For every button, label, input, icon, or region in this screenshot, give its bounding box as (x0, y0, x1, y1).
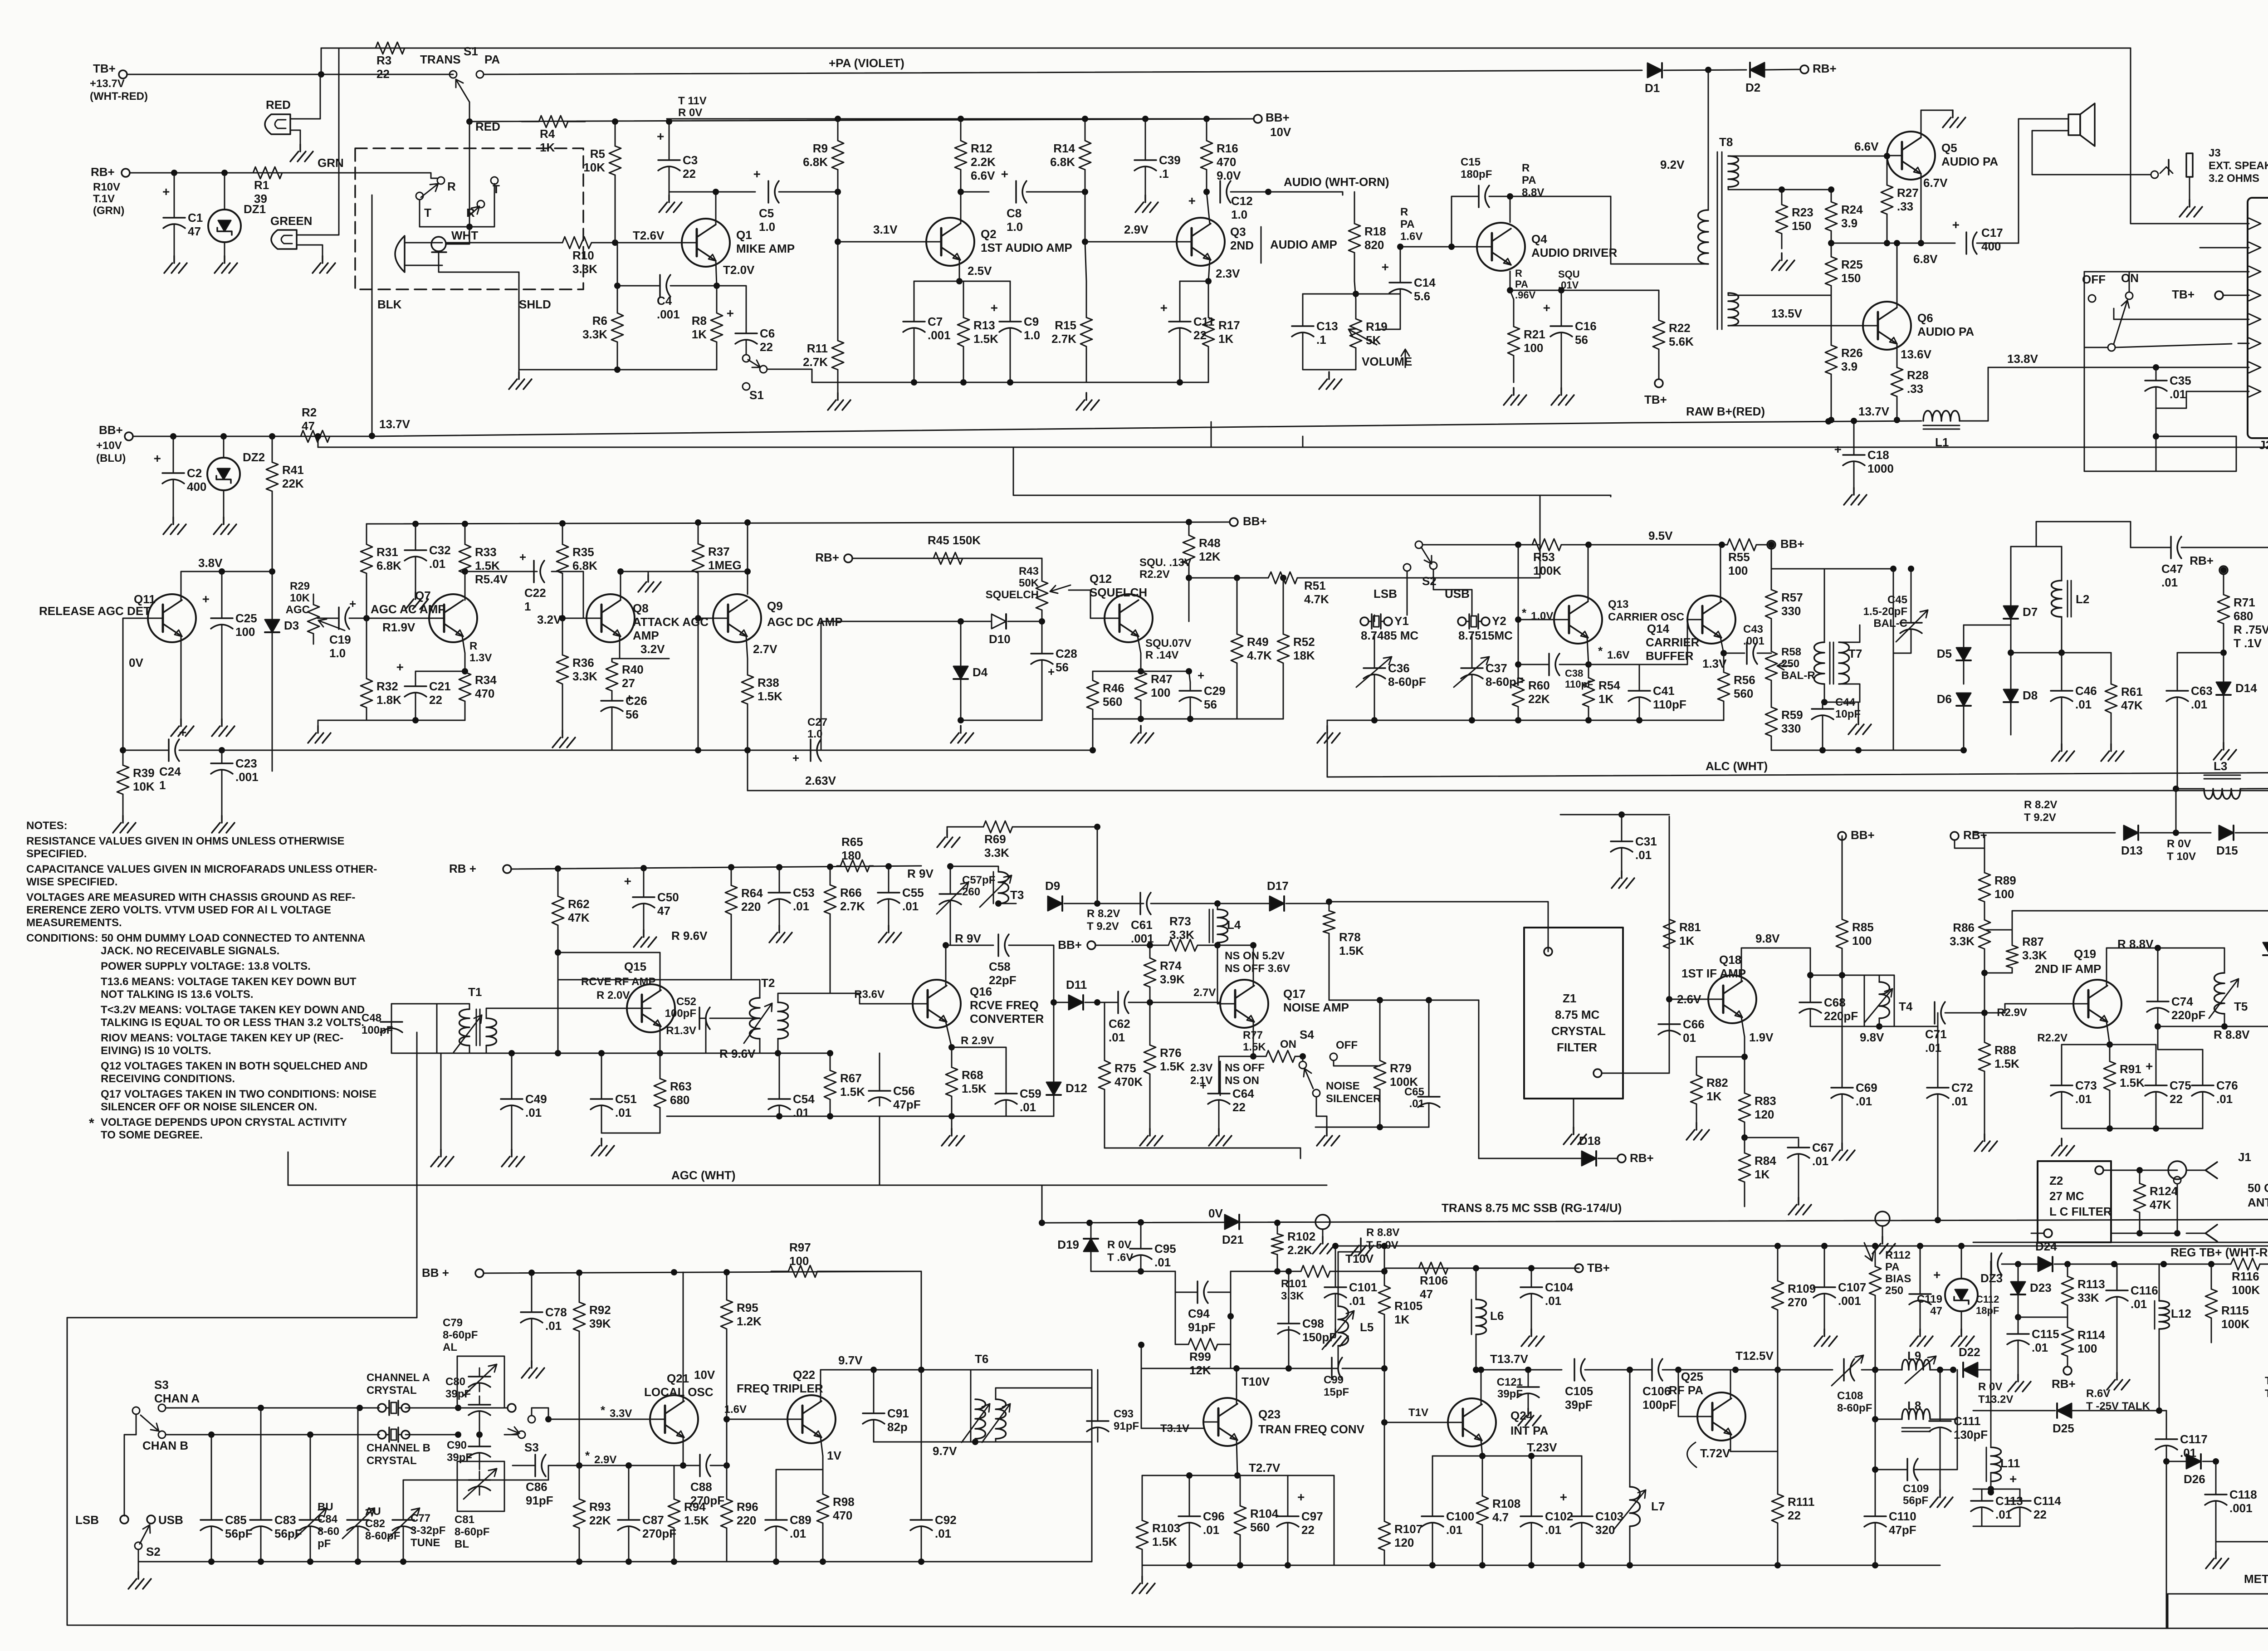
ground (509, 372, 532, 389)
svg-text:6.7V: 6.7V (1923, 176, 1948, 190)
wire (1053, 1095, 1055, 1116)
svg-text:R93: R93 (589, 1500, 611, 1514)
wire (601, 1114, 602, 1133)
wire Q13 base (1518, 619, 1554, 620)
wire (747, 720, 748, 750)
svg-text:15pF: 15pF (1324, 1386, 1349, 1398)
svg-text:C56: C56 (893, 1084, 915, 1098)
svg-text:CRYSTAL: CRYSTAL (1551, 1024, 1606, 1038)
svg-text:R46: R46 (1103, 681, 1124, 695)
svg-text:.01: .01 (1812, 1154, 1828, 1168)
resistor R113 (2067, 1264, 2068, 1276)
svg-text:R43: R43 (1019, 565, 1039, 577)
wire (1810, 1017, 1811, 1026)
wire (950, 866, 998, 872)
svg-text:4.7: 4.7 (1492, 1510, 1509, 1524)
svg-text:R83: R83 (1755, 1094, 1776, 1108)
svg-text:10K: 10K (133, 780, 155, 793)
svg-text:R28: R28 (1907, 368, 1929, 382)
wire (1452, 196, 1479, 247)
svg-text:4.7K: 4.7K (1247, 649, 1272, 662)
svg-text:PA: PA (1400, 218, 1415, 230)
resistor R36 (562, 618, 563, 655)
svg-text:+: + (991, 301, 998, 315)
svg-text:J1: J1 (2238, 1150, 2251, 1164)
svg-text:NOTES:: NOTES: (26, 820, 68, 832)
svg-text:ERERENCE ZERO VOLTS. VTVM USE: ERERENCE ZERO VOLTS. VTVM USED FOR Al L … (26, 904, 331, 916)
wire (1097, 827, 1098, 904)
wire (1559, 664, 1589, 665)
wire (479, 1461, 480, 1470)
wire (223, 436, 225, 458)
svg-text:BB+: BB+ (99, 423, 123, 437)
svg-text:C61: C61 (1131, 918, 1153, 932)
ground (1564, 1127, 1586, 1144)
wire (1471, 683, 1473, 720)
transistor Q6 (1863, 302, 1911, 350)
svg-text:R104: R104 (1250, 1507, 1279, 1520)
resistor R87 (2012, 941, 2013, 945)
wire (611, 716, 613, 750)
wire (715, 192, 717, 225)
svg-text:+: + (1834, 442, 1842, 456)
resistor R17 (1208, 281, 1209, 317)
svg-text:C76: C76 (2216, 1079, 2238, 1092)
svg-text:D11: D11 (1066, 978, 1087, 992)
wire (1518, 545, 1519, 664)
node BB+ osc (1767, 541, 1775, 549)
wire (1253, 1056, 1262, 1057)
transistor Q8 (587, 594, 635, 642)
wire (1054, 1002, 1069, 1003)
svg-text:C58: C58 (989, 960, 1011, 973)
svg-text:C74: C74 (2171, 995, 2193, 1008)
transistor Q17 (1220, 980, 1268, 1028)
svg-text:R.6V: R.6V (2086, 1387, 2110, 1400)
svg-text:C77: C77 (411, 1512, 430, 1524)
svg-text:AUDIO (WHT-ORN): AUDIO (WHT-ORN) (1284, 175, 1389, 189)
svg-text:C109: C109 (1903, 1483, 1929, 1495)
svg-text:Q2: Q2 (981, 227, 997, 241)
capacitor (1920, 1285, 1921, 1294)
svg-text:WISE SPECIFIED.: WISE SPECIFIED. (26, 876, 117, 888)
svg-text:+: + (753, 167, 761, 181)
wire (961, 720, 1042, 721)
ground (942, 1128, 964, 1146)
wire (2084, 347, 2108, 348)
coax jack (2168, 1161, 2186, 1179)
resistor R109 (1777, 1246, 1779, 1281)
resistor R57 (1771, 569, 1772, 590)
wire ns bus (1105, 1148, 1300, 1149)
svg-text:.01: .01 (1349, 1294, 1365, 1308)
wire (2215, 1509, 2217, 1542)
wire (670, 285, 717, 287)
svg-text:R11: R11 (807, 342, 828, 355)
wire (1930, 1369, 1953, 1371)
svg-text:3.2V: 3.2V (537, 613, 562, 626)
svg-text:R101: R101 (1281, 1278, 1307, 1290)
svg-text:C84: C84 (318, 1513, 338, 1525)
capacitor (950, 885, 951, 894)
wire (1810, 975, 1879, 982)
wire Q6 collector (1897, 243, 1898, 308)
wire (950, 866, 951, 885)
wire (1277, 1265, 1278, 1271)
svg-text:T13.2V: T13.2V (1978, 1393, 2013, 1406)
resistor R94 (674, 1465, 675, 1499)
diode D9 (1048, 896, 1062, 911)
wire (1897, 344, 1898, 345)
resistor R52 (1283, 578, 1284, 634)
svg-text:R29: R29 (290, 580, 310, 592)
svg-text:R13: R13 (973, 318, 995, 332)
svg-text:AMP: AMP (633, 629, 659, 642)
wire emitter Q2 (959, 260, 960, 281)
transistor Q9 (713, 594, 761, 642)
wire (1744, 1037, 1745, 1077)
svg-text:R4: R4 (540, 127, 555, 141)
wire (1145, 119, 1146, 151)
svg-text:PA: PA (1515, 278, 1528, 290)
diode D6 (1956, 693, 1971, 706)
resistor R33 (464, 524, 466, 544)
wire (1531, 1456, 1532, 1508)
svg-text:3.2V: 3.2V (640, 642, 665, 656)
wire (1893, 638, 1911, 653)
svg-text:BU: BU (318, 1501, 333, 1513)
wire (1984, 836, 1985, 867)
svg-text:DZ1: DZ1 (244, 202, 266, 216)
wire (1090, 1251, 1092, 1265)
svg-text:D26: D26 (2184, 1472, 2205, 1486)
svg-text:3.9: 3.9 (1841, 360, 1857, 373)
wire (1621, 856, 1623, 871)
svg-text:ANTENNA: ANTENNA (2248, 1196, 2268, 1209)
wire (221, 750, 223, 755)
wire (2116, 1264, 2118, 1282)
node BB+ osc2 (475, 1269, 484, 1277)
wire (1327, 720, 1328, 777)
capacitor C116 (2116, 1282, 2118, 1290)
svg-text:1.0: 1.0 (1024, 328, 1040, 342)
wire (1069, 590, 1090, 618)
svg-text:R 0V: R 0V (678, 107, 702, 119)
resistor R13 (963, 281, 964, 317)
wire Q13 emitter (1587, 638, 1589, 664)
svg-text:+: + (396, 660, 404, 674)
wire (1151, 903, 1217, 904)
svg-text:2.2K: 2.2K (971, 155, 996, 169)
wire Q7 emitter (462, 636, 465, 653)
capacitor C23 (221, 755, 223, 763)
svg-text:+: + (2146, 1059, 2153, 1073)
wire (1322, 1229, 1324, 1236)
svg-text:R .14V: R .14V (1145, 649, 1178, 661)
svg-text:BUFFER: BUFFER (1646, 649, 1694, 663)
svg-text:R1: R1 (254, 178, 269, 192)
wire (776, 1535, 777, 1562)
svg-text:12K: 12K (1199, 550, 1221, 563)
wire (1175, 1292, 1176, 1344)
wire (776, 1470, 777, 1511)
svg-text:100K: 100K (1533, 564, 1561, 577)
capacitor C74 (2157, 993, 2159, 1001)
capacitor C94 (1197, 1281, 1198, 1303)
resistor R71 (2223, 574, 2224, 595)
wire RB+ AGC rail (367, 522, 1230, 524)
wire (1973, 832, 2115, 834)
svg-text:2.7V: 2.7V (753, 642, 777, 656)
wire (644, 1053, 706, 1054)
svg-text:22: 22 (2033, 1508, 2047, 1521)
J2 pin 2 (2249, 362, 2261, 373)
svg-text:C69: C69 (1856, 1081, 1877, 1094)
svg-text:1.5K: 1.5K (973, 332, 998, 346)
wire (1963, 660, 1965, 684)
resistor R58 (1771, 639, 1772, 651)
wire (946, 945, 993, 946)
svg-text:.01: .01 (1020, 1100, 1036, 1114)
wire (1531, 1302, 1532, 1329)
svg-text:R9: R9 (813, 142, 828, 155)
svg-text:.01: .01 (790, 1527, 806, 1540)
wire (173, 488, 174, 517)
svg-text:T10V: T10V (1345, 1252, 1374, 1265)
svg-text:AGC: AGC (286, 604, 310, 616)
wire (1978, 1369, 1991, 1371)
wire (1140, 1264, 1142, 1271)
resistor R29 (313, 594, 314, 605)
wire Q22 base (727, 1419, 787, 1420)
resistor R73 (1154, 945, 1168, 946)
wire (1211, 945, 1217, 946)
svg-text:BIAS: BIAS (1885, 1273, 1911, 1285)
svg-text:R62: R62 (568, 897, 590, 911)
svg-text:ON: ON (1280, 1038, 1296, 1050)
capacitor C52 (699, 1007, 700, 1029)
wire (838, 241, 926, 243)
wire Q8 collector (620, 571, 621, 600)
resistor R116 (2229, 1264, 2231, 1265)
svg-text:C71: C71 (1925, 1027, 1947, 1041)
wire (224, 242, 225, 256)
svg-text:BB+: BB+ (1058, 938, 1082, 952)
capacitor (357, 1511, 359, 1520)
svg-text:R56: R56 (1734, 673, 1755, 687)
wire (2166, 1461, 2186, 1462)
svg-text:3.1V: 3.1V (873, 223, 898, 236)
svg-text:8.75 MC: 8.75 MC (1555, 1008, 1599, 1021)
wire (1086, 382, 1208, 383)
svg-text:T.23V: T.23V (1527, 1441, 1557, 1454)
svg-text:6.8K: 6.8K (803, 155, 828, 169)
wire (1303, 293, 1356, 295)
wire (1009, 945, 1054, 1002)
svg-text:.01: .01 (1545, 1294, 1561, 1308)
ground (638, 575, 661, 592)
svg-text:R19: R19 (1366, 320, 1388, 333)
wire (272, 517, 273, 571)
wire (1610, 495, 1612, 497)
svg-text:C17: C17 (1981, 226, 2003, 239)
wire (683, 1465, 700, 1466)
svg-text:GREEN: GREEN (270, 214, 312, 228)
svg-text:.01: .01 (2075, 1092, 2092, 1106)
wire (628, 1465, 630, 1511)
resistor R18 (1354, 195, 1355, 224)
wire (1875, 1419, 1907, 1470)
wire (504, 1407, 508, 1409)
wire (643, 868, 645, 889)
wire Q24 collector (1481, 1370, 1482, 1404)
svg-text:D10: D10 (989, 632, 1011, 646)
capacitor (1990, 1253, 1992, 1275)
svg-text:BB +: BB + (422, 1266, 449, 1280)
wire (1920, 1246, 1921, 1285)
ground (163, 517, 186, 534)
svg-text:R5: R5 (590, 147, 605, 161)
svg-text:SILENCER OFF OR NOISE SILENCER: SILENCER OFF OR NOISE SILENCER ON. (101, 1101, 317, 1113)
wire (223, 490, 225, 517)
svg-text:L2: L2 (2076, 592, 2089, 606)
wire to Q17 base (1217, 945, 1220, 1004)
svg-text:RB+: RB+ (1630, 1151, 1654, 1165)
ground (214, 517, 236, 534)
svg-text:1K: 1K (1394, 1313, 1409, 1326)
wire (531, 1327, 533, 1361)
ground (113, 816, 136, 833)
wire Q11 emitter (181, 636, 182, 719)
wire (211, 1535, 212, 1562)
lamp GREEN (271, 230, 297, 249)
wire (1930, 1370, 1957, 1419)
wire Q4 base (1400, 246, 1477, 248)
resistor R64 (731, 867, 732, 885)
capacitor C13 (1302, 317, 1304, 326)
wire (821, 750, 1093, 751)
svg-text:R2.2V: R2.2V (2037, 1032, 2068, 1044)
svg-text:L11: L11 (2000, 1456, 2020, 1470)
wire (778, 993, 830, 1002)
wire (821, 621, 961, 622)
svg-text:+: + (1543, 301, 1550, 315)
wire (873, 1428, 875, 1442)
transistor Q25 (1697, 1392, 1745, 1441)
wire (1104, 1116, 1105, 1148)
svg-text:C86: C86 (526, 1480, 547, 1494)
svg-text:D7: D7 (2023, 605, 2038, 619)
wire (995, 1439, 997, 1442)
wire (1984, 962, 1985, 1013)
wire (1354, 192, 1355, 195)
wire (1335, 1246, 1336, 1279)
svg-text:1.3V: 1.3V (469, 652, 492, 664)
resistor R49 (1237, 578, 1238, 634)
wire (2019, 1489, 2021, 1492)
resistor R28 (1897, 344, 1898, 367)
svg-text:C67: C67 (1812, 1141, 1834, 1154)
ground (1131, 726, 1154, 743)
wire (1097, 1002, 1105, 1003)
wire (2140, 1170, 2177, 1171)
capacitor C53 (779, 884, 780, 893)
svg-text:Q5: Q5 (1941, 141, 1957, 155)
resistor R107 (1384, 1507, 1385, 1521)
wire +PA bus (321, 48, 2131, 49)
svg-text:39K: 39K (589, 1317, 611, 1330)
wire (1374, 615, 1375, 621)
transistor Q15 (627, 984, 675, 1032)
svg-text:R22: R22 (1669, 321, 1691, 335)
wire (2158, 1026, 2203, 1050)
wire (921, 1370, 922, 1511)
svg-text:C14: C14 (1414, 276, 1436, 289)
svg-text:RCVE RF AMP: RCVE RF AMP (581, 976, 655, 988)
svg-text:320: 320 (1595, 1523, 1615, 1537)
wire 2.63V line (748, 790, 2268, 791)
wire (1219, 1056, 1253, 1057)
wire (2010, 619, 2012, 689)
svg-text:R: R (1522, 162, 1530, 174)
wire (1798, 1163, 1799, 1197)
wire (1955, 840, 1984, 848)
wire (479, 1420, 480, 1435)
wire (504, 1434, 518, 1436)
svg-text:+: + (349, 597, 356, 611)
wire (617, 243, 618, 286)
svg-text:R63: R63 (670, 1079, 692, 1093)
svg-text:1.6V: 1.6V (1607, 649, 1629, 661)
wire (1208, 1292, 1231, 1293)
wire (531, 1273, 533, 1304)
capacitor C75 (2156, 1077, 2157, 1085)
svg-text:R124: R124 (2150, 1184, 2178, 1198)
svg-text:C115: C115 (2032, 1327, 2059, 1341)
svg-text:R96: R96 (737, 1500, 758, 1514)
diode D17 (1270, 896, 1284, 911)
diode D14 (2216, 682, 2231, 695)
wire (310, 1435, 311, 1511)
svg-text:1: 1 (159, 778, 166, 792)
svg-text:C92: C92 (935, 1513, 957, 1527)
svg-text:C114: C114 (2033, 1494, 2061, 1508)
wire (914, 281, 1010, 282)
svg-text:8-60pF: 8-60pF (1388, 675, 1426, 689)
wire Q19 base (1984, 1004, 2073, 1013)
svg-text:C55: C55 (902, 886, 924, 899)
svg-text:EXT. SPEAKER: EXT. SPEAKER (2209, 160, 2268, 172)
svg-text:R 9.6V: R 9.6V (671, 929, 708, 943)
svg-text:.01: .01 (615, 1106, 631, 1119)
svg-text:.01: .01 (429, 557, 445, 571)
svg-text:JACK. NO RECEIVABLE SIGNALS.: JACK. NO RECEIVABLE SIGNALS. (101, 945, 279, 957)
node RB+ d18 (1618, 1154, 1626, 1163)
ground (659, 195, 682, 212)
svg-text:L5: L5 (1360, 1320, 1374, 1334)
svg-text:Z1: Z1 (1563, 992, 1576, 1005)
svg-text:560: 560 (1103, 695, 1122, 708)
svg-text:R10: R10 (572, 249, 594, 262)
svg-text:R49: R49 (1247, 635, 1269, 649)
svg-text:C91: C91 (887, 1407, 909, 1420)
resistor R59 (1771, 693, 1772, 707)
resistor R63 (660, 1053, 661, 1079)
wire (1875, 1419, 1902, 1420)
svg-text:Q18: Q18 (1719, 953, 1741, 967)
wire (1561, 341, 1562, 388)
microphone connector box (355, 148, 583, 289)
